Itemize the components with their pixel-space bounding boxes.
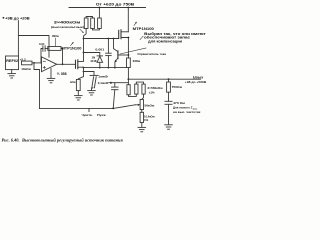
node: rail dot at R5 [99,7,101,9]
ground: under divider [138,127,146,131]
label: REF02 [6,58,19,63]
ground: under R7 [75,96,83,100]
label: 10,4kOhm [144,114,155,118]
wire: Q2 drain lead [121,31,128,33]
svg-text:REF02: REF02 [6,58,19,63]
label: arrow to Q1 [71,42,74,46]
capacitor C1 0,01 [43,46,45,52]
svg-text:+9В до +20В: +9В до +20В [5,16,30,20]
svg-text:Рис. 6.40.: Рис. 6.40. [2,137,20,142]
op-amp U1 1/2 LM358 [42,57,57,72]
svg-text:56кОм: 56кОм [144,103,154,107]
resistor R11 10,4kOhm [140,112,143,127]
label: note chosen-for-margin line 1 [144,32,206,36]
wire: Q1 source to ground network [83,68,85,72]
node: gate bias node Y dots [83,38,85,54]
wire: bus down to output line [127,68,129,80]
label: high-voltage type [51,25,84,29]
label: 1kOhm [70,80,76,84]
wire: op-amp output to driver MOSFET gate [57,63,76,65]
wire: summing node down to feedback riser [34,63,40,109]
svg-text:1%: 1% [144,118,149,122]
svg-text:на выс. частотах: на выс. частотах [173,110,201,114]
svg-text:0,1мкФ: 0,1мкФ [98,81,109,85]
svg-text:3×400кОм: 3×400кОм [54,20,81,24]
resistor R5 400kOhm (c) [98,18,102,29]
wire: R3 down to node Y [84,29,87,39]
node: rail dot at Q2 drain [127,7,129,9]
wire: top bar R3-R4 [86,17,92,19]
svg-text:3×560кОм: 3×560кОм [147,86,162,90]
label: 470 Ohm [173,101,185,105]
resistor R4 400kOhm (b) [91,18,95,29]
node: C5 wire dot [110,82,112,84]
ground: under C4 [165,125,173,129]
svg-text:470 Ом: 470 Ом [173,101,185,105]
wire: Q1 drain [78,39,84,62]
label: +620V to 750V unregulated input [96,2,135,6]
label: Uout [193,75,204,79]
wire: bottom bar R4-R5 [93,29,100,30]
svg-text:4148: 4148 [90,59,97,63]
label: 750 Ohm [172,85,182,89]
wire: D1 anode to source bus [99,62,101,67]
label: 1MOhm with callout [52,34,59,38]
label: plus input [43,66,45,68]
diode D1 1N4148 [97,56,103,62]
resistor R13 560kOhm (c) [136,82,145,94]
resistor R9 560kOhm (b) [129,84,139,96]
capacitor C4 [165,101,172,124]
wire: C5 tap wire to divider top [111,82,128,84]
node: summing junction dot [33,62,35,64]
svg-text:±1%: ±1% [149,91,155,95]
svg-text:750Ом: 750Ом [172,85,182,89]
svg-text:+98 до +500В: +98 до +500В [185,80,207,84]
svg-text:(высоковольтные): (высоковольтные) [51,25,84,29]
wire: R2 to op-amp output [61,49,63,65]
label: Ogranichitel toka [137,52,166,56]
node: dot collector branch [113,38,115,40]
svg-text:для компенсации: для компенсации [148,40,182,44]
label: arrow to C5 node [109,82,110,84]
label: 3x560kOhm [147,86,162,90]
capacitor C5 feedforward [112,83,119,109]
transistor Q2 pass MOSFET MTP1N100 [119,30,121,39]
wire: Q3 base to sense tap [118,54,128,56]
wire: +V branch to op-amp V+ pin [18,36,49,58]
svg-text:1МОм: 1МОм [52,34,59,38]
label: wiper arrow [136,104,141,106]
svg-text:Пуск.: Пуск. [97,113,107,117]
node: output junction dot [62,63,64,65]
label: +98 to +500V [185,80,207,84]
label: 1uF for source bypass cap [98,75,108,79]
node: D1 bus dot [99,67,101,69]
label: 1% [144,118,149,122]
label: 0,001 [95,47,104,51]
svg-text:10кОм: 10кОм [21,67,31,71]
node: Q1 source dot [83,67,85,69]
svg-text:33Ом: 33Ом [133,59,141,63]
node: ground network dot [83,71,85,73]
node: output line dot at bus [127,78,129,80]
label: 1/2 358 [57,72,67,76]
ground: under C3 [88,91,96,95]
svg-text:Высоковольтный регулируемый ис: Высоковольтный регулируемый источник пит… [21,137,123,142]
resistor R8 560kOhm (a) [127,79,130,95]
transistor Q3 current limiter NPN [114,39,118,68]
label: note low Z line 1 [173,106,198,111]
label: 1N [92,55,96,59]
resistor R12 750 Ohm [167,79,171,101]
svg-text:1кОм: 1кОм [70,80,76,84]
wire: output line [128,78,200,80]
svg-text:От +620 до 750В: От +620 до 750В [96,2,135,6]
label: 3x400kOhm [54,20,81,24]
svg-text:Чувств.: Чувств. [82,113,93,117]
svg-text:МТР1N100: МТР1N100 [133,27,154,31]
svg-text:0,001: 0,001 [95,47,104,51]
wire: rail down to Q2 drain [127,8,129,32]
node: C2 bus dot [108,67,110,69]
label: 0,1uF with arrow [98,81,109,85]
node: output line dot at RC [168,78,170,80]
label: sense [82,113,93,117]
resistor R3 400kOhm (a) [84,18,88,29]
label: note low Z line 2 [173,110,201,114]
label: 56kOhm [144,103,154,107]
label: 0,01 [39,42,45,46]
node: +9V..+20V input terminal [3,17,5,19]
label: note callout tick [140,36,143,39]
label: second terminal word [97,113,107,117]
resistor R2 1MOhm [48,47,61,51]
wire: callout line to R2 [55,38,57,46]
label: current limiter callout [120,48,146,54]
potentiometer R10 56kOhm [140,99,143,112]
svg-text:Ограничитель тока: Ограничитель тока [137,52,166,56]
svg-text:1мкФ: 1мкФ [98,75,108,79]
label: 4148 [90,59,97,63]
label: MTP1N100 (driver) [62,46,82,50]
wire: source bus [84,67,129,69]
resistor R6 33 Ohm [127,58,131,68]
node: Q2 source dot [127,37,129,39]
label: minus input [43,60,45,62]
capacitor C3 1uF [84,72,99,91]
wire: feedback sense line [40,105,136,109]
label: 10kOhm [21,67,31,71]
wire: Q1 source [78,66,84,68]
label: +-1% [149,91,155,95]
wire: +HV rail [69,7,146,9]
capacitor C2 0,001 gate-source [106,39,112,68]
wire: R1 to op-amp inverting input [32,62,42,64]
label: note line 3 [148,40,182,44]
ground: op-amp V- pin [47,68,55,82]
wire: jog from node Y to diode [84,53,100,56]
wire: C1 to R2 [45,48,48,50]
wire: inverting input riser to compensation network [41,49,43,63]
wire: R13 bottom to pot [142,94,144,99]
svg-text:0,01: 0,01 [39,42,45,46]
svg-text:½ 358: ½ 358 [57,72,67,76]
box U2 REF02 voltage reference [6,56,19,70]
resistor R1 10kOhm [22,61,33,65]
label: supply voltage +9V to +20V [5,16,30,20]
label: MTP1N100 (pass) [133,27,154,31]
wire: gate bias line node Y to Q2 gate [84,38,119,40]
wire: from +V terminal down to REF02 [17,21,19,56]
wire: R5 to +HV rail [98,8,100,19]
label: note line 2 [144,36,190,40]
node: dot 0,001 branch [108,38,110,40]
resistor R7 1kOhm [76,72,83,96]
svg-text:МТР1N100: МТР1N100 [62,46,82,50]
node: sense tick [88,108,90,111]
svg-text:Uвых: Uвых [193,75,204,79]
wire: Q2 source lead [121,38,128,59]
label: arrow to Q2 [134,22,137,26]
node: sense tap dot [127,54,129,56]
transistor Q1 driver MOSFET MTP1N100 [76,60,78,69]
node: feedback line dot [112,108,114,110]
label: +5,2 [20,58,26,62]
label: figure caption [2,137,124,142]
ground: REF02 ground pin [8,70,16,78]
label: arrow to R3 [80,29,84,33]
node: emitter bus dot [114,67,116,69]
label: 33 Ohm [133,59,141,63]
